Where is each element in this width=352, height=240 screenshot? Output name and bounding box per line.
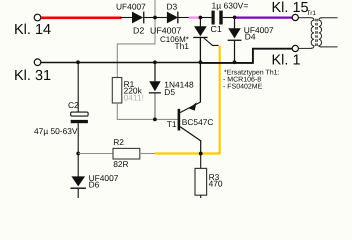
diode D5 [149,62,194,119]
svg-text:82R: 82R [113,159,128,169]
diode D2 [116,1,146,35]
note Ersatztypen [223,69,280,91]
capacitor C2 [34,62,88,153]
wire node A to D3 [155,17,168,19]
resistor R3 [195,154,223,199]
thyristor Th1 [160,18,219,52]
wire D2 to node A [144,17,156,19]
svg-text:Th1: Th1 [175,41,190,51]
svg-text:C2: C2 [68,100,79,110]
wire bus right portion to Kl.1 [200,49,292,63]
svg-text:Kl. 15: Kl. 15 [272,0,309,16]
node junction dot C2/R2/D6 [76,152,80,156]
node junction dot bus/C2 [76,60,80,64]
resistor R2 [113,137,140,169]
svg-text:C1: C1 [211,24,222,34]
svg-text:R2: R2 [113,137,124,147]
wire purple to Kl.15 [236,17,292,19]
wire D3 to pink [179,17,190,19]
svg-text:D4: D4 [245,32,256,42]
wire node to C1 [200,17,211,19]
wire Kl.15 to transformer [298,17,311,19]
svg-text:UF4007: UF4007 [116,1,146,11]
terminal Kl. 1 [272,45,301,68]
node junction dot collector/R3/yellow [199,152,203,156]
svg-text:1µ 630V=: 1µ 630V= [212,1,249,11]
wire pink segment [189,17,200,19]
node junction dot bus/Th1 [199,60,203,64]
svg-text:- MCR106-8: - MCR106-8 [223,77,261,84]
svg-text:D3: D3 [167,1,178,11]
wire Kl.1 to transformer [298,47,311,49]
wire grey R2 right [140,153,155,155]
svg-text:470: 470 [209,179,223,189]
wire yellow horizontal R2 to corner [155,152,220,154]
wire R1 bottom to base node [117,103,178,119]
svg-text:Kl. 14: Kl. 14 [14,22,51,38]
svg-text:D6: D6 [89,180,100,190]
wire yellow gate down [219,46,220,154]
left winding [311,18,314,49]
wire Th1 cathode down through bus to transistor emitter [199,38,201,102]
svg-text:Tr1: Tr1 [307,10,317,17]
node junction dot bus/D5 [153,60,157,64]
transformer Tr1 [298,10,337,49]
diode D4 [228,18,274,63]
core [315,19,317,47]
svg-text:0411!: 0411! [124,93,144,103]
svg-text:BC547C: BC547C [182,117,214,127]
svg-text:UF4007: UF4007 [150,25,181,35]
wire grey feed: top edge through node A down and jog to R1 [117,0,155,78]
wire black red-end to D2 [121,17,133,19]
svg-text:D2: D2 [133,25,144,35]
wire grey node to R2 [78,153,113,155]
wire secondary top [321,17,338,19]
node junction dot C1/D4/Kl.15 [233,16,237,20]
svg-text:- FS0402ME: - FS0402ME [223,84,263,91]
node junction dot bus/D4 [233,60,237,64]
svg-text:T1: T1 [167,119,177,129]
wire C1 to node [223,17,235,19]
terminal Kl. 15 [272,0,309,21]
wire secondary bottom [321,46,338,48]
svg-text:47µ 50-63V: 47µ 50-63V [34,126,78,136]
terminal Kl. 31 [14,59,51,84]
right winding [319,18,322,47]
node A junction dot D2/D3 [153,16,157,20]
capacitor C1 [211,1,249,34]
svg-text:Kl. 1: Kl. 1 [272,52,301,68]
svg-text:D5: D5 [164,87,175,97]
diode D6 [70,154,118,199]
node junction dot D5/base [153,118,157,122]
wire bus Kl.31 left portion [41,62,201,64]
svg-text:Kl. 31: Kl. 31 [14,68,51,84]
node junction dot D3/C1/Th1 [199,16,203,20]
terminal Kl. 14 [14,14,51,38]
resistor R1 [112,78,144,104]
transistor T1 [167,102,214,154]
wire red from Kl.14 to D2 [41,16,122,19]
diode D3 [150,1,181,35]
svg-text:*Ersatztypen Th1:: *Ersatztypen Th1: [224,69,280,77]
